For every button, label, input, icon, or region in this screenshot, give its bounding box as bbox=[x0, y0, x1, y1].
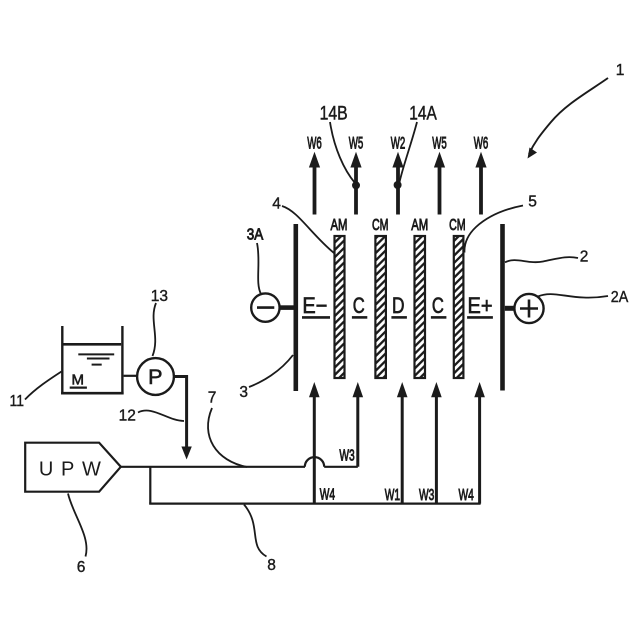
svg-text:W3: W3 bbox=[419, 487, 434, 504]
liquid level line in tank bbox=[64, 343, 122, 346]
svg-text:2: 2 bbox=[580, 249, 589, 266]
electrode plate 2 (anode, right) bbox=[500, 224, 505, 391]
UPW source symbol 6 bbox=[25, 443, 121, 492]
leader line from 4 to membrane AM 1 bbox=[282, 206, 334, 253]
svg-text:E+: E+ bbox=[468, 293, 493, 318]
svg-text:W4: W4 bbox=[458, 487, 473, 504]
svg-text:M: M bbox=[72, 372, 85, 389]
feed pipe 7 (upper line from UPW) bbox=[121, 466, 305, 468]
leader line from 7 to feed pipe bbox=[208, 408, 247, 467]
arrow W6 outlet from E+ compartment bbox=[479, 166, 483, 215]
liquid surface marks bbox=[78, 353, 114, 355]
arrow W5 outlet from first C compartment bbox=[354, 166, 358, 215]
svg-text:14B: 14B bbox=[320, 103, 348, 125]
svg-text:3A: 3A bbox=[247, 227, 264, 244]
node 14B (dot on W5 outlet) bbox=[352, 181, 360, 189]
leader line from 14B to node on W5 line bbox=[330, 122, 355, 183]
leader line from 11 to tank bbox=[25, 372, 62, 400]
wire tank to pump bbox=[124, 375, 138, 377]
svg-text:C: C bbox=[353, 293, 365, 318]
electrode plate 3 (cathode, left) bbox=[293, 224, 298, 391]
svg-text:E−: E− bbox=[302, 293, 327, 318]
svg-text:D: D bbox=[392, 293, 405, 318]
manifold 8 bottom line bbox=[149, 503, 480, 505]
wire anode plate to plus terminal bbox=[505, 306, 515, 311]
anion membrane AM 1 bbox=[335, 236, 345, 378]
feed W4 into E+ compartment (manifold right edge) bbox=[478, 395, 481, 504]
feed W1 into D compartment bbox=[401, 395, 404, 504]
crossover hop over W4 line bbox=[305, 457, 324, 467]
svg-text:W6: W6 bbox=[474, 134, 489, 152]
cation membrane CM 2 bbox=[375, 236, 386, 378]
svg-text:5: 5 bbox=[528, 194, 537, 211]
svg-text:W4: W4 bbox=[320, 487, 335, 504]
arrow W6 outlet from E- compartment bbox=[313, 166, 317, 215]
svg-text:W3: W3 bbox=[339, 448, 354, 465]
leader line from 3A to minus terminal bbox=[257, 243, 261, 294]
svg-text:1: 1 bbox=[616, 62, 625, 79]
svg-text:P: P bbox=[148, 365, 162, 389]
leader line from 2 to anode plate bbox=[505, 257, 578, 262]
svg-text:W6: W6 bbox=[307, 134, 322, 152]
minus terminal (cathode) bbox=[251, 293, 279, 321]
svg-text:3: 3 bbox=[239, 384, 248, 401]
wire minus terminal to cathode plate bbox=[280, 305, 294, 310]
plus terminal (anode) bbox=[514, 294, 543, 323]
leader line from 3 to cathode plate bbox=[249, 355, 293, 387]
svg-text:6: 6 bbox=[77, 559, 86, 576]
tank 11 (chemical tank) bbox=[61, 326, 63, 394]
leader line from 2A to plus terminal bbox=[538, 294, 608, 298]
leader line from 6 to UPW symbol bbox=[68, 494, 87, 557]
feed W3 into first C compartment bbox=[356, 395, 359, 467]
svg-text:8: 8 bbox=[267, 557, 276, 574]
leader arrow from 1 bbox=[529, 78, 608, 154]
leader line from 13 to pump bbox=[153, 303, 157, 356]
leader line from 12 to pipe bbox=[138, 410, 184, 421]
svg-text:14A: 14A bbox=[409, 103, 437, 125]
svg-text:AM: AM bbox=[411, 217, 428, 234]
arrow W2 outlet from D compartment bbox=[396, 166, 400, 215]
svg-text:13: 13 bbox=[151, 288, 168, 305]
svg-text:7: 7 bbox=[208, 390, 217, 407]
leader line from 5 to membrane CM 4 bbox=[464, 206, 523, 253]
pump P 13 bbox=[137, 358, 174, 395]
svg-text:W1: W1 bbox=[385, 487, 400, 504]
svg-text:W5: W5 bbox=[432, 134, 447, 152]
svg-text:12: 12 bbox=[119, 408, 136, 425]
manifold 8 left edge bbox=[149, 467, 151, 504]
leader line from 8 to manifold bbox=[244, 505, 267, 557]
pipe 12 from pump down to feed line with arrow bbox=[174, 377, 187, 448]
node 14A (dot on W2 outlet) bbox=[394, 181, 402, 189]
svg-text:W5: W5 bbox=[349, 134, 364, 152]
svg-text:4: 4 bbox=[272, 196, 281, 213]
anion membrane AM 3 bbox=[415, 236, 426, 378]
svg-text:CM: CM bbox=[449, 217, 466, 234]
svg-text:W2: W2 bbox=[391, 134, 406, 152]
feed W3 into second C compartment bbox=[435, 395, 438, 504]
svg-text:UPW: UPW bbox=[39, 458, 101, 480]
svg-text:C: C bbox=[432, 293, 444, 318]
svg-text:11: 11 bbox=[10, 393, 25, 410]
svg-text:AM: AM bbox=[331, 217, 348, 234]
svg-text:CM: CM bbox=[372, 217, 389, 234]
svg-text:2A: 2A bbox=[611, 289, 629, 306]
cation membrane CM 4 bbox=[454, 236, 464, 378]
feed W4 into E- compartment bbox=[313, 395, 316, 504]
arrow W5 outlet from second C compartment bbox=[438, 166, 442, 215]
leader line from 14A to node on W2 line bbox=[399, 122, 417, 183]
